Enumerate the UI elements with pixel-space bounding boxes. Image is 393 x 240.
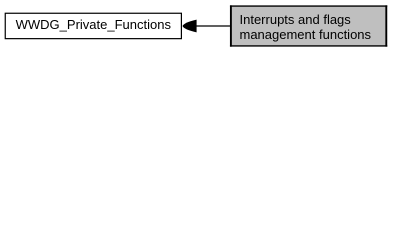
node WWDG_Private_Functions xyxy=(5,13,181,38)
node2 left border xyxy=(230,5,232,46)
svg-text:WWDG_Private_Functions: WWDG_Private_Functions xyxy=(16,17,172,32)
node2 right border xyxy=(385,5,387,46)
svg-text:Interrupts and flags: Interrupts and flags xyxy=(240,12,352,27)
node2 bottom border xyxy=(230,45,387,47)
arrowhead xyxy=(183,20,197,33)
wire edge line xyxy=(196,25,232,27)
background xyxy=(0,0,393,52)
svg-text:management functions: management functions xyxy=(240,27,372,42)
node Interrupts and flags management functions xyxy=(230,5,387,46)
node2 top border xyxy=(230,5,387,7)
